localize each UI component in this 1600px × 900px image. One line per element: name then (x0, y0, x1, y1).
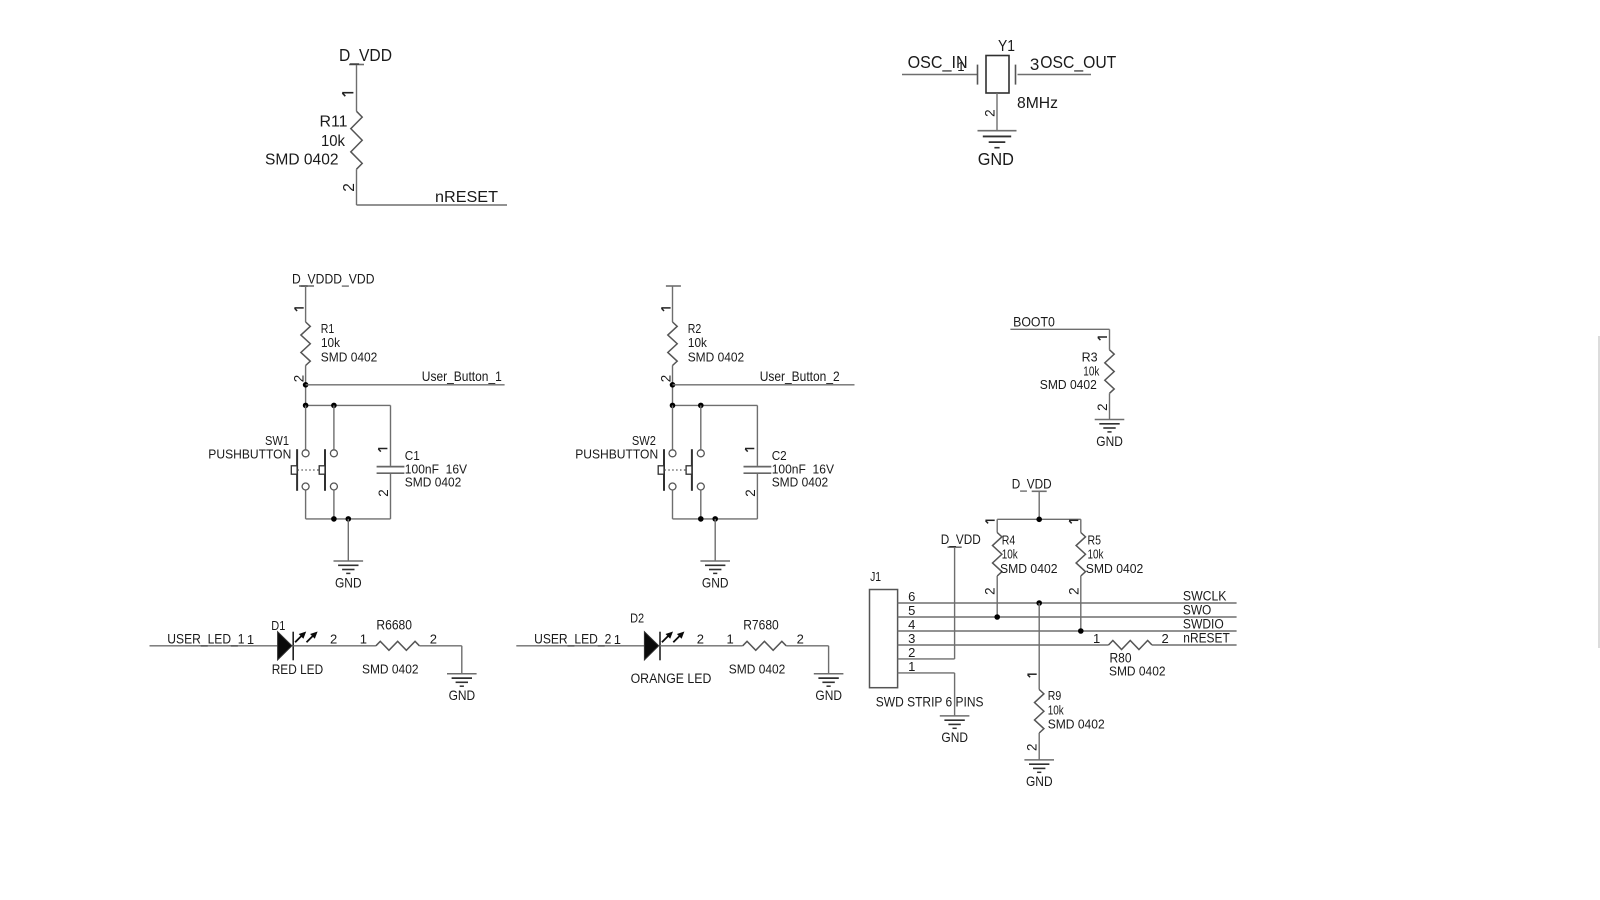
svg-text:nRESET: nRESET (1183, 631, 1230, 646)
wire D_VDD to R11 pin 1 (356, 65, 358, 112)
pin number 1 of C1 (378, 449, 387, 452)
svg-text:10k: 10k (1048, 702, 1064, 717)
svg-text:GND: GND (1026, 774, 1053, 789)
svg-text:PUSHBUTTON: PUSHBUTTON (208, 447, 291, 462)
pin number 2 of C2 (743, 489, 758, 496)
svg-text:SWCLK: SWCLK (1183, 589, 1227, 604)
value 100nF 16V (C1) (405, 461, 467, 476)
label D2 (630, 610, 644, 625)
ground (R9) (1024, 760, 1054, 789)
svg-text:2: 2 (292, 375, 307, 382)
wire R5 pin 2 to SWDIO (1080, 576, 1082, 631)
svg-text:1: 1 (614, 632, 621, 647)
value 10k (R5) (1088, 547, 1104, 562)
pin number 1 of R8 (1093, 631, 1100, 646)
label R3 (1082, 349, 1098, 364)
ground (SW1/C1) (334, 561, 364, 590)
pin number 1 of R5 (1069, 520, 1078, 523)
svg-text:10k: 10k (688, 335, 707, 350)
svg-text:GND: GND (449, 688, 476, 703)
pin number 1 of R1 (294, 308, 303, 311)
junction rail right (SW2) (698, 403, 704, 409)
svg-text:2: 2 (430, 632, 437, 647)
label Y1 (998, 38, 1015, 55)
wire to SW1 contact b (333, 405, 335, 449)
pin number 2 of R9 (1025, 744, 1040, 751)
svg-text:4: 4 (908, 617, 915, 632)
svg-text:PUSHBUTTON: PUSHBUTTON (575, 447, 658, 462)
svg-text:R9: R9 (1048, 688, 1062, 703)
power symbol D_VDDD_VDD (R1) (292, 272, 375, 287)
label R4 (1002, 533, 1016, 548)
net label nRESET (SWD) (1183, 631, 1230, 646)
resistor R1 (301, 322, 310, 366)
svg-text:nRESET: nRESET (435, 189, 498, 206)
resistor R5 (1076, 533, 1085, 577)
junction R4 on SWO (994, 614, 1000, 620)
label SMD 0402 (R9) (1048, 717, 1105, 732)
pin number 2 of R6 (430, 632, 437, 647)
value 100nF 16V (C2) (772, 461, 834, 476)
wire R9 pin 2 to ground (1038, 733, 1040, 760)
label RED LED (272, 662, 324, 677)
svg-text:10k: 10k (1002, 547, 1018, 562)
svg-text:1: 1 (247, 632, 254, 647)
switch SW2 actuator bars (664, 449, 692, 491)
svg-text:SMD 0402: SMD 0402 (405, 475, 462, 490)
pin number 1 of R4 (985, 520, 994, 523)
net label USER_LED_2 (534, 631, 611, 647)
svg-text:2: 2 (982, 109, 997, 117)
svg-text:SMD 0402: SMD 0402 (1086, 561, 1144, 576)
wire SWCLK down to R9 (1038, 603, 1040, 690)
svg-text:GND: GND (702, 575, 729, 590)
svg-text:5: 5 (908, 603, 915, 618)
junction R5 on SWDIO (1078, 628, 1084, 634)
label SMD 0402 (R2) (688, 350, 745, 365)
wire nRESET net (357, 204, 508, 206)
power symbol D_VDD (R11) (339, 45, 392, 66)
pin number 2 of R5 (1066, 587, 1081, 594)
resistor R6 (376, 641, 420, 650)
svg-text:2: 2 (1162, 631, 1169, 646)
label C2 (772, 448, 787, 463)
svg-text:D2: D2 (630, 610, 644, 625)
wire D_VDD to rail (R4/R5) (1038, 491, 1040, 519)
svg-text:SWO: SWO (1183, 603, 1211, 618)
label SMD 0402 (R3) (1040, 377, 1097, 392)
svg-text:D_VDD: D_VDD (941, 532, 981, 547)
junction bottom rail GND (SW2) (712, 516, 718, 522)
label SMD 0402 (R6) (362, 662, 419, 677)
net label OSC_IN (908, 52, 968, 73)
wire J1 pin 3 to R8 (898, 644, 1109, 646)
wire C1 pin 2 (390, 474, 392, 519)
label R2 (688, 321, 702, 336)
crystal Y1 left plate (977, 65, 979, 85)
ground (J1 pin1) (940, 716, 970, 745)
pin number 2 of R1 (292, 375, 307, 382)
wire USER_LED_1 net (150, 645, 278, 647)
svg-text:D1: D1 (271, 618, 285, 633)
wire C1 pin 1 (390, 405, 392, 466)
wire J1 pin 4 SWDIO line (898, 630, 1237, 632)
pin number 2 of Y1 (982, 109, 997, 117)
scrollbar sliver at right edge (1598, 336, 1600, 648)
pin number 5 of J1 (908, 603, 915, 618)
svg-text:BOOT0: BOOT0 (1013, 314, 1055, 330)
switch SW2 coupling dashed line (664, 469, 685, 471)
diode D2 light arrows (662, 632, 685, 643)
crystal Y1 right plate (1015, 65, 1017, 85)
label SMD 0402 (R8) (1109, 664, 1166, 679)
wire D2 cathode to R7 (660, 645, 743, 647)
diode D2 (LED) (644, 632, 658, 660)
svg-text:6: 6 (908, 589, 915, 604)
value 10k (R11) (321, 133, 345, 150)
svg-text:SWDIO: SWDIO (1183, 617, 1224, 632)
svg-text:1: 1 (727, 632, 734, 647)
pin number 1 of R7 (727, 632, 734, 647)
wire J1 pin 6 SWCLK line (898, 602, 1237, 604)
svg-text:1: 1 (1093, 631, 1100, 646)
value 10k (R2) (688, 335, 707, 350)
svg-text:GND: GND (815, 688, 842, 703)
svg-text:SMD 0402: SMD 0402 (362, 662, 419, 677)
wire rail corner to R5 (1080, 519, 1082, 532)
svg-text:2: 2 (659, 375, 674, 382)
pin number 2 of D1 (330, 632, 337, 647)
net label BOOT0 (1013, 314, 1055, 330)
ground (R7) (814, 674, 844, 703)
svg-text:GND: GND (1096, 434, 1123, 449)
wire SW2 contact a to rail (672, 490, 674, 519)
pin number 1 of D2 (614, 632, 621, 647)
svg-text:SMD 0402: SMD 0402 (1040, 377, 1097, 392)
ground (Y1) (978, 131, 1017, 169)
switch SW2 actuator pads (658, 466, 692, 474)
wire SW2 contact b to rail (700, 490, 702, 519)
switch SW1 actuator pads (291, 466, 325, 474)
wire to SW1 contact a (305, 405, 307, 449)
svg-text:GND: GND (335, 575, 362, 590)
svg-text:3: 3 (1030, 55, 1039, 74)
svg-text:R7680: R7680 (743, 617, 779, 632)
svg-text:SMD 0402: SMD 0402 (321, 350, 378, 365)
label SMD 0402 (C2) (772, 475, 829, 490)
label D1 (271, 618, 285, 633)
wire top rail SW2/C2 (673, 404, 758, 406)
pin number 2 of J1 (908, 645, 915, 660)
pin number 1 of R9 (1027, 674, 1036, 677)
wire J1 pin 2 to D_VDD (898, 658, 955, 660)
label SMD 0402 (R5) (1086, 561, 1144, 576)
wire top rail SW1/C1 (306, 404, 391, 406)
node User_Button_1 junction (303, 382, 309, 388)
svg-text:10k: 10k (321, 335, 340, 350)
pin number 2 of R2 (659, 375, 674, 382)
net label SWO (1183, 603, 1211, 618)
label SMD 0402 (R11) (265, 152, 339, 169)
svg-text:D_VDD: D_VDD (339, 45, 392, 66)
value 8MHz (Y1) (1017, 95, 1058, 112)
net label SWCLK (1183, 589, 1227, 604)
wire User_Button_2 net (673, 384, 855, 386)
wire power to R1 (305, 286, 307, 322)
svg-text:GND: GND (941, 730, 968, 745)
pin number 3 of J1 (908, 631, 915, 646)
label R6 (name+value overlap) (376, 617, 412, 632)
node User_Button_2 junction (670, 382, 676, 388)
wire OSC_OUT net (1018, 74, 1092, 76)
wire R4 pin 2 to SWO (996, 576, 998, 617)
power symbol D_VDD (J1 pin2) (941, 532, 981, 547)
svg-text:2: 2 (743, 489, 758, 496)
svg-text:OSC_OUT: OSC_OUT (1040, 52, 1116, 73)
pin number 2 of R8 (1162, 631, 1169, 646)
svg-text:SMD 0402: SMD 0402 (1048, 717, 1105, 732)
label PUSHBUTTON (SW1) (208, 447, 291, 462)
label SW2 (632, 433, 656, 448)
pin number 1 of J1 (908, 659, 915, 674)
label SWD STRIP 6 PINS (876, 695, 984, 710)
label PUSHBUTTON (SW2) (575, 447, 658, 462)
wire SW1 contact a to rail (305, 490, 307, 519)
value 10k (R4) (1002, 547, 1018, 562)
label R1 (321, 321, 335, 336)
value 10k (R9) (1048, 702, 1064, 717)
wire to SW2 contact a (672, 405, 674, 449)
svg-text:2: 2 (341, 183, 358, 192)
diode D1 (LED) (278, 632, 292, 660)
wire D_VDD down to J1 pin 2 (954, 547, 956, 659)
diode D1 cathode bar (292, 632, 294, 661)
net label nRESET (435, 189, 498, 206)
svg-text:SMD 0402: SMD 0402 (729, 662, 786, 677)
value 10k (R1) (321, 335, 340, 350)
label SMD 0402 (R4) (1000, 561, 1058, 576)
svg-text:SMD 0402: SMD 0402 (1000, 561, 1058, 576)
junction R9 on SWCLK (1036, 600, 1042, 606)
svg-text:User_Button_2: User_Button_2 (760, 368, 840, 384)
switch SW1 contacts (302, 450, 337, 490)
svg-text:GND: GND (978, 149, 1014, 169)
svg-text:R6680: R6680 (376, 617, 412, 632)
junction bottom rail (SW1) (331, 516, 337, 522)
label R9 (1048, 688, 1062, 703)
wire User_Button_1 net (306, 384, 505, 386)
pin number 2 of D2 (697, 632, 704, 647)
net label User_Button_1 (422, 368, 502, 384)
switch SW1 coupling dashed line (298, 469, 319, 471)
svg-text:SWD STRIP 6 PINS: SWD STRIP 6 PINS (876, 695, 984, 710)
wire J1 pin 1 to ground corner (898, 672, 955, 674)
pin number 1 of D1 (247, 632, 254, 647)
pin number 1 of Y1 (957, 59, 964, 74)
pin number 1 of R3 (1098, 337, 1107, 340)
capacitor C1 (377, 467, 405, 474)
diode D1 light arrows (295, 632, 318, 643)
capacitor C2 (744, 467, 772, 474)
switch SW1 actuator bars (297, 449, 325, 491)
svg-text:USER_LED_1: USER_LED_1 (167, 631, 244, 647)
svg-text:2: 2 (908, 645, 915, 660)
connector J1 body (870, 590, 898, 688)
value 10k (R3) (1083, 364, 1099, 379)
label R8 (name+value overlap) (1110, 651, 1132, 666)
label SMD 0402 (R1) (321, 350, 378, 365)
wire C2 pin 2 (756, 474, 758, 519)
svg-text:USER_LED_2: USER_LED_2 (534, 631, 611, 647)
label R11 (320, 113, 348, 130)
crystal Y1 body (986, 56, 1009, 94)
svg-text:RED LED: RED LED (272, 662, 324, 677)
svg-text:2: 2 (376, 489, 391, 496)
svg-text:2: 2 (1025, 744, 1040, 751)
ground (R3) (1095, 420, 1125, 449)
label C1 (405, 448, 420, 463)
resistor R11 (351, 111, 362, 169)
wire D1 cathode to R6 (293, 645, 376, 647)
svg-text:SMD 0402: SMD 0402 (688, 350, 745, 365)
net label User_Button_2 (760, 368, 840, 384)
svg-text:10k: 10k (321, 133, 345, 150)
net label SWDIO (1183, 617, 1224, 632)
resistor R3 (1105, 350, 1114, 394)
ground (R6) (447, 674, 477, 703)
resistor R2 (668, 322, 677, 366)
wire rail to ground (SW1) (347, 519, 349, 561)
wire Y1 pin 2 to ground (996, 93, 998, 131)
wire SW1 contact b to rail (333, 490, 335, 519)
svg-text:10k: 10k (1088, 547, 1104, 562)
wire OSC_IN net (902, 74, 978, 76)
svg-text:2: 2 (1095, 403, 1110, 410)
wire R11 pin 2 down (356, 169, 358, 205)
label SMD 0402 (C1) (405, 475, 462, 490)
pin number 2 of R4 (983, 587, 998, 594)
wire R2 pin 2 to node (672, 366, 674, 406)
pin number 2 of R11 (341, 183, 358, 192)
junction bottom rail (SW2) (698, 516, 704, 522)
wire R7 to corner (786, 645, 828, 647)
svg-text:2: 2 (1066, 587, 1081, 594)
svg-text:2: 2 (697, 632, 704, 647)
junction rail left (SW2) (670, 403, 676, 409)
pin number 1 of R11 (342, 93, 353, 97)
label SW1 (265, 433, 289, 448)
wire corner down to ground (R7) (828, 646, 830, 674)
svg-text:SMD 0402: SMD 0402 (1109, 664, 1166, 679)
svg-text:R1: R1 (321, 321, 335, 336)
label J1 (870, 569, 881, 584)
pin number 1 of C2 (745, 449, 754, 452)
svg-text:ORANGE LED: ORANGE LED (631, 671, 712, 686)
svg-text:D_VDDD_VDD: D_VDDD_VDD (292, 272, 375, 287)
junction bottom rail GND (SW1) (346, 516, 352, 522)
resistor R7 (743, 641, 787, 650)
junction rail right (SW1) (331, 403, 337, 409)
svg-text:R11: R11 (320, 113, 348, 130)
wire rail R4-R5 (997, 518, 1081, 520)
wire bottom rail SW1/C1 (306, 518, 391, 520)
wire USER_LED_2 net (516, 645, 644, 647)
wire R8 to nRESET label (1152, 644, 1237, 646)
svg-text:1: 1 (908, 659, 915, 674)
net label USER_LED_1 (167, 631, 244, 647)
svg-text:Y1: Y1 (998, 38, 1015, 55)
wire BOOT0 net (1010, 328, 1109, 330)
wire BOOT0 corner down to R3 (1109, 329, 1111, 350)
wire J1 pin 1 down to ground (954, 673, 956, 716)
wire J1 pin 5 SWO line (898, 616, 1237, 618)
label R7 (name+value overlap) (743, 617, 779, 632)
wire to SW2 contact b (700, 405, 702, 449)
junction rail left (SW1) (303, 403, 309, 409)
label ORANGE LED (631, 671, 712, 686)
diode D2 cathode bar (659, 632, 661, 661)
power symbol (R2) (666, 285, 681, 287)
net label OSC_OUT (1040, 52, 1116, 73)
svg-text:R4: R4 (1002, 533, 1016, 548)
pin number 6 of J1 (908, 589, 915, 604)
svg-text:1: 1 (957, 59, 964, 74)
pin number 1 of R6 (360, 632, 367, 647)
wire power to R2 (672, 286, 674, 322)
wire rail corner to R4 (996, 519, 998, 532)
wire R1 pin 2 to node (305, 366, 307, 406)
label SMD 0402 (R7) (729, 662, 786, 677)
pin number 4 of J1 (908, 617, 915, 632)
svg-text:SMD 0402: SMD 0402 (265, 152, 339, 169)
svg-text:1: 1 (360, 632, 367, 647)
power symbol D_VDD (R4/R5) (1012, 476, 1052, 491)
pin number 3 of Y1 (1030, 55, 1039, 74)
svg-text:D_VDD: D_VDD (1012, 476, 1052, 491)
svg-text:2: 2 (797, 632, 804, 647)
junction D_VDD rail (1036, 517, 1042, 523)
svg-text:2: 2 (983, 587, 998, 594)
resistor R4 (993, 533, 1002, 577)
wire rail to ground (SW2) (714, 519, 716, 561)
resistor R8 (1109, 641, 1153, 650)
resistor R9 (1035, 690, 1044, 734)
svg-text:8MHz: 8MHz (1017, 95, 1058, 112)
svg-text:J1: J1 (870, 569, 881, 584)
svg-text:R5: R5 (1088, 533, 1102, 548)
pin number 2 of R7 (797, 632, 804, 647)
wire bottom rail SW2/C2 (673, 518, 758, 520)
pin number 2 of R3 (1095, 403, 1110, 410)
switch SW2 contacts (669, 450, 704, 490)
wire corner down to ground (R6) (461, 646, 463, 674)
wire R3 pin 2 to ground (1109, 393, 1111, 419)
ground (SW2/C2) (700, 561, 730, 590)
svg-text:SMD 0402: SMD 0402 (772, 475, 829, 490)
svg-text:R3: R3 (1082, 349, 1098, 364)
svg-text:User_Button_1: User_Button_1 (422, 368, 502, 384)
pin number 1 of R2 (661, 308, 670, 311)
wire R6 to corner (419, 645, 461, 647)
wire C2 pin 1 (756, 405, 758, 466)
svg-text:3: 3 (908, 631, 915, 646)
label R5 (1088, 533, 1102, 548)
svg-text:2: 2 (330, 632, 337, 647)
pin number 2 of C1 (376, 489, 391, 496)
svg-text:R2: R2 (688, 321, 702, 336)
